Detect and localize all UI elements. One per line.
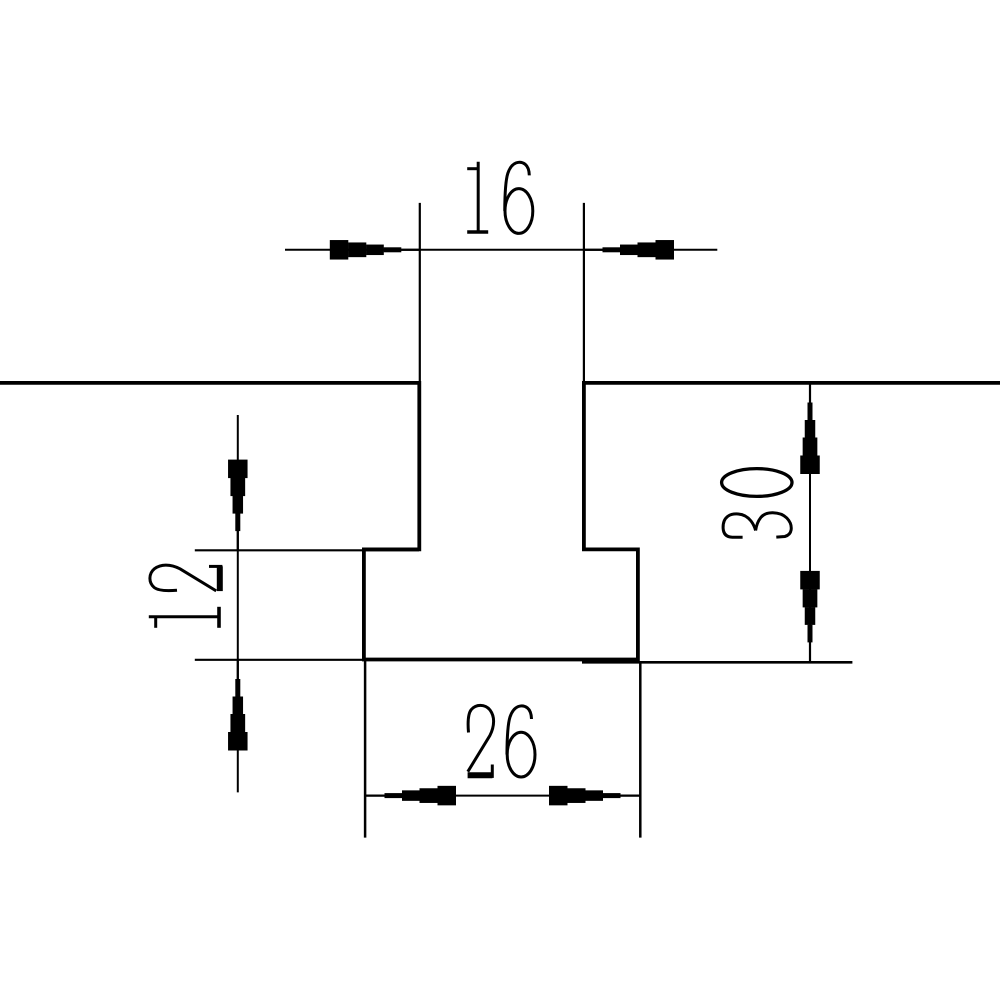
dim 16: right arrow <box>584 240 675 259</box>
dim 12: top arrow (points down) <box>228 460 248 551</box>
dim 26: right extension line <box>639 662 642 838</box>
dim 26: dimension line <box>365 795 640 797</box>
dim 16: left arrow <box>330 240 421 259</box>
dim 30: dimension line <box>809 383 811 662</box>
dim 26: left extension line <box>364 661 367 838</box>
dim 12: dimension line <box>237 415 239 792</box>
dim 12: text (rotated) <box>149 607 219 628</box>
dim 26: right arrow (points right) <box>549 786 640 806</box>
dim 26: left arrow (points left) <box>366 786 457 806</box>
T-slot profile outline <box>0 383 1000 660</box>
dim 26: text <box>468 705 494 778</box>
dim 30: top arrow (points up) <box>800 384 820 475</box>
dim 16: text <box>467 162 488 232</box>
dim 16: dimension line <box>285 249 717 251</box>
dim 16: right extension line <box>583 203 585 381</box>
dim 12: bottom extension line <box>195 659 370 661</box>
dim 12: bottom arrow (points up) <box>228 660 248 751</box>
dim 16: left extension line <box>419 203 421 381</box>
dim 30: bottom arrow (points down) <box>800 571 820 662</box>
dim 30: text (rotated) <box>723 513 791 538</box>
dim 12: top extension line <box>195 549 419 551</box>
dim 30: bottom extension line <box>582 661 852 664</box>
